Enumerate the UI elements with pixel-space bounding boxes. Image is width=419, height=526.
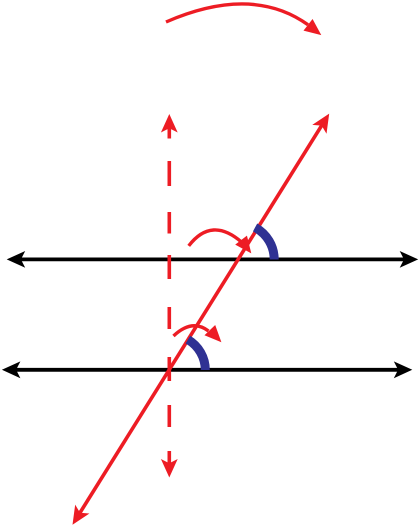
middle red curved arrow (upper intersection) <box>189 230 257 258</box>
wire: red transversal line <box>65 109 336 526</box>
small red curved arrow (lower intersection) <box>174 325 227 347</box>
arc marker: upper blue angle arc <box>255 227 274 259</box>
arc marker: lower blue angle arc <box>188 340 205 370</box>
top red curved arrow <box>166 4 326 41</box>
wire: lower horizontal line <box>2 361 412 378</box>
wire: upper horizontal line <box>7 251 419 268</box>
wire: red dashed vertical line <box>161 114 178 478</box>
